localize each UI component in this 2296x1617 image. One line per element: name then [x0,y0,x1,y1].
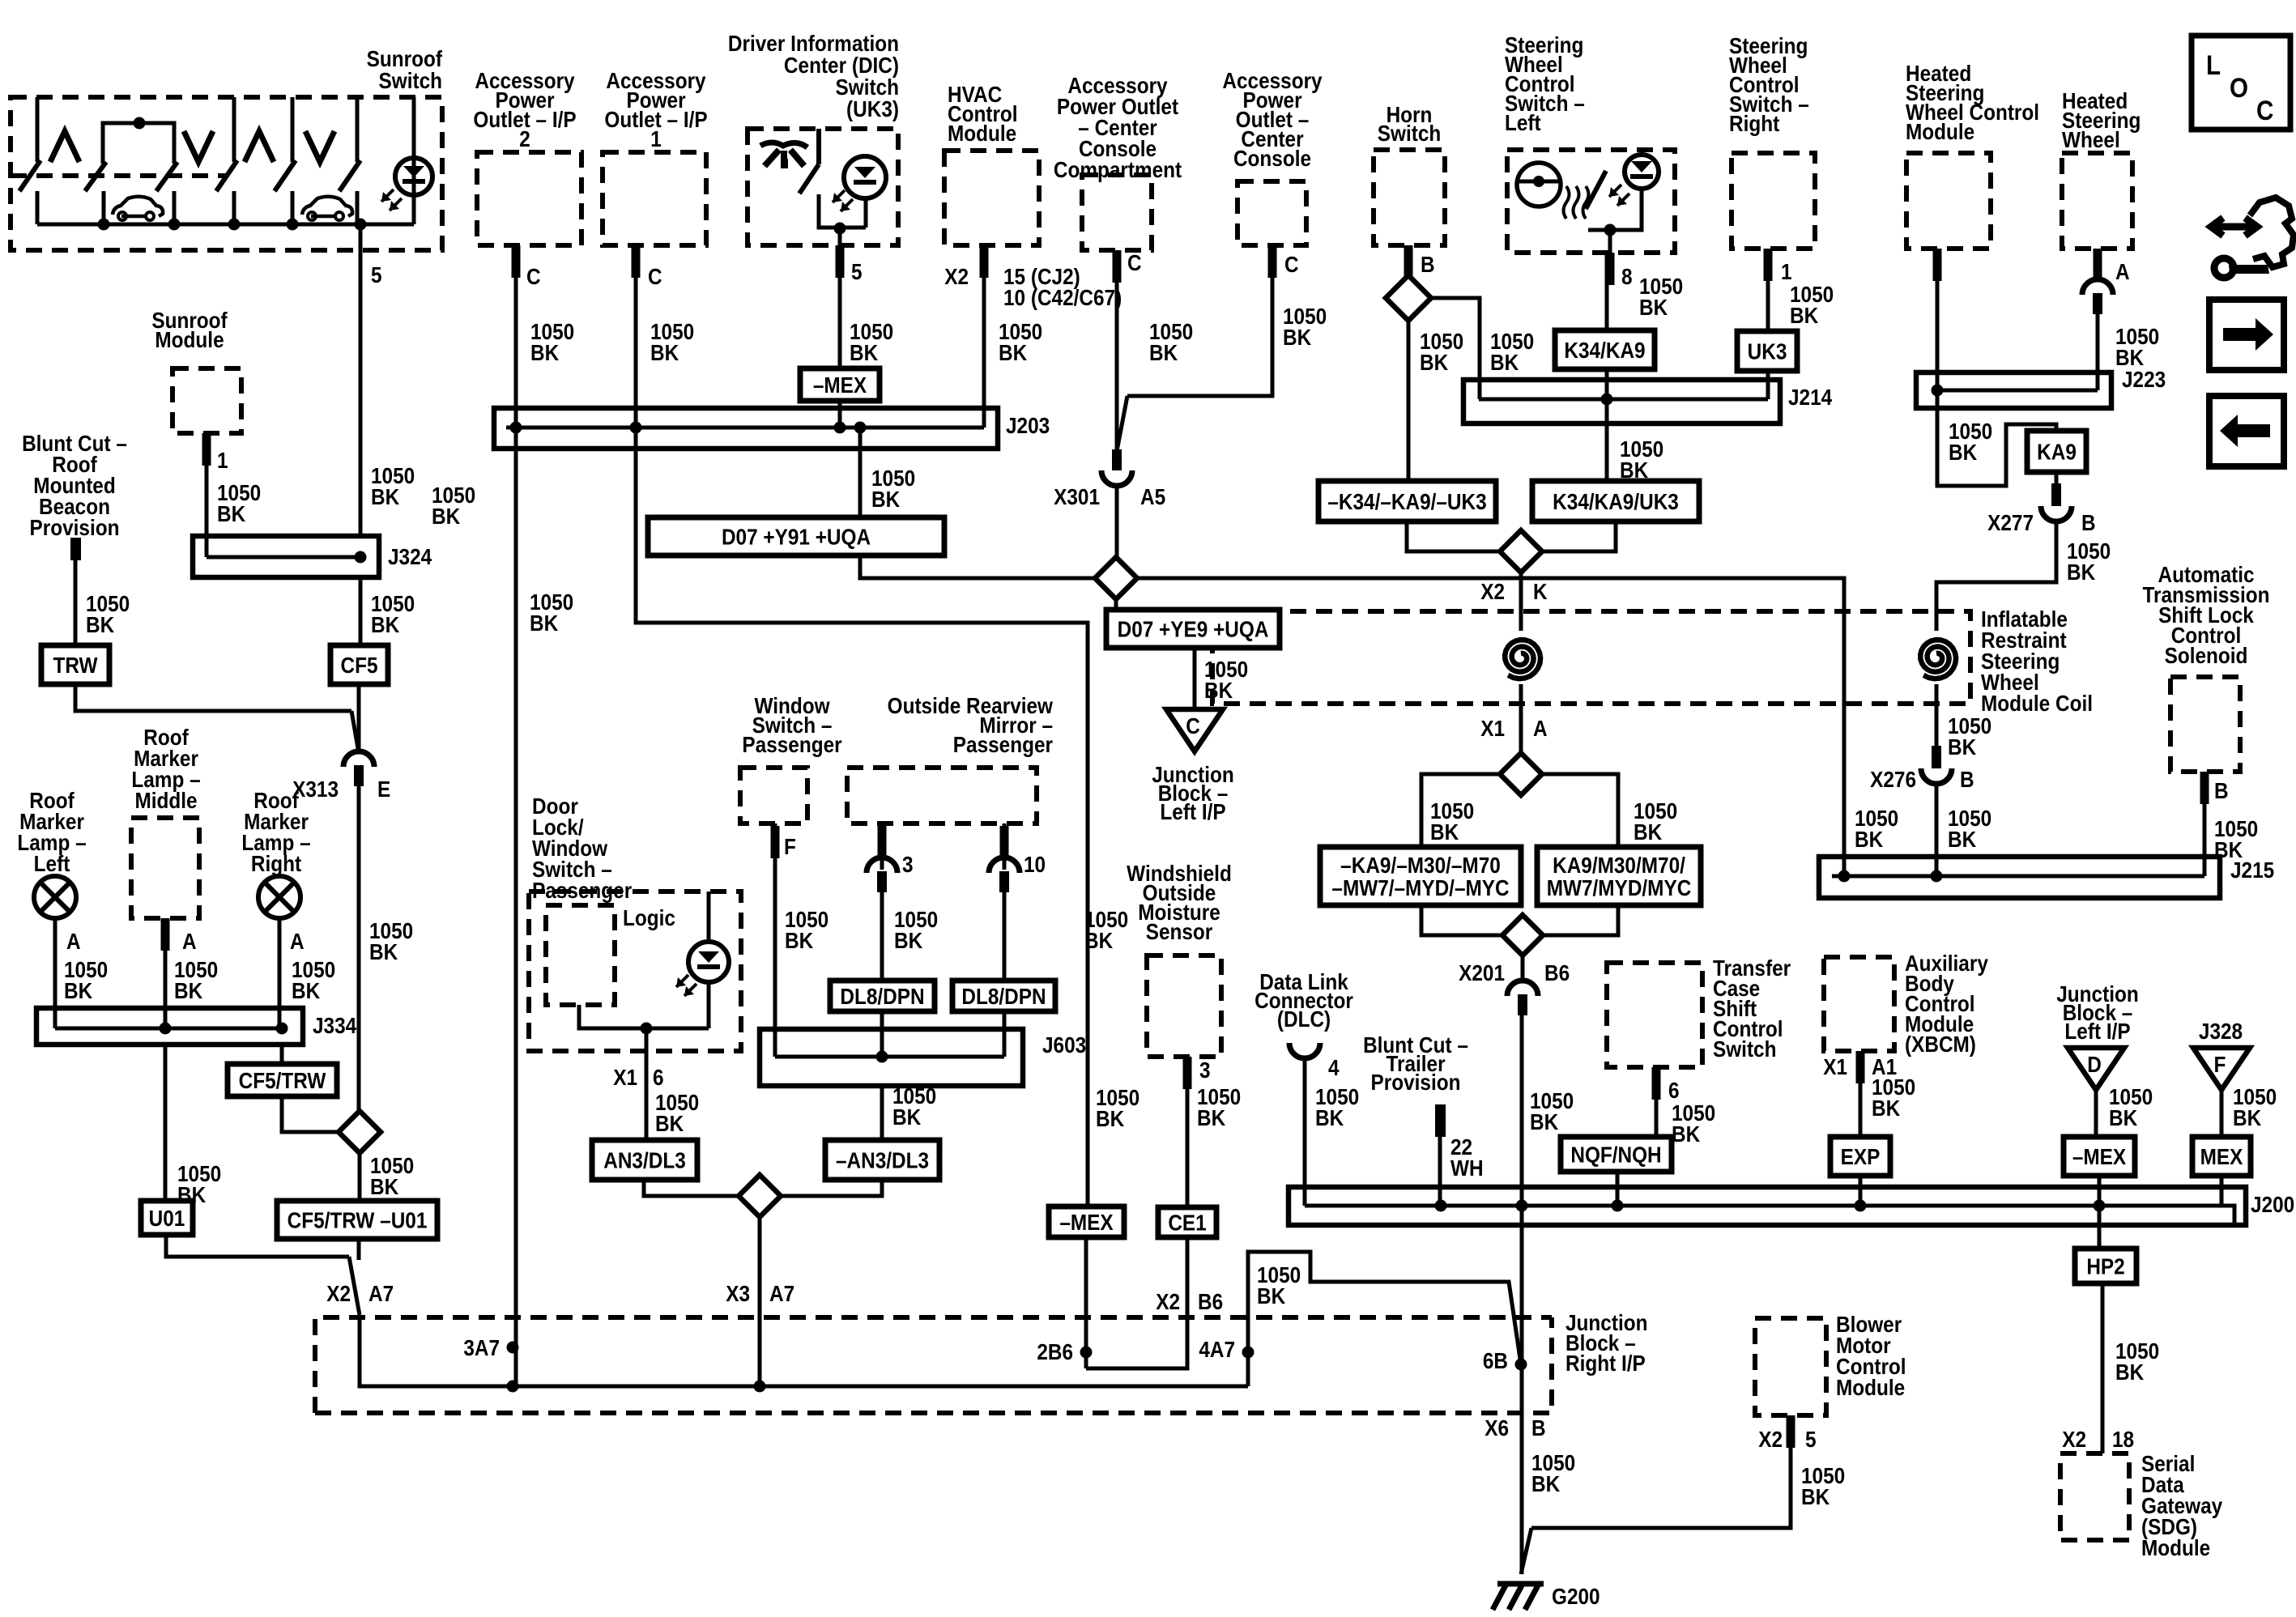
wire K34 box to splice [1542,521,1616,551]
svg-text:Right I/P: Right I/P [1565,1350,1646,1376]
svg-text:Switch: Switch [1713,1036,1776,1062]
svg-text:BK: BK [1872,1095,1900,1121]
option label KA9 [2027,431,2086,472]
wire beacon to TRW [74,559,78,645]
wire CF5 to X313 [357,684,361,753]
svg-text:X2: X2 [326,1280,351,1306]
wire NQF/NQH to J200 [1616,1172,1620,1206]
svg-text:WH: WH [1450,1155,1484,1181]
J223 dot [1932,385,1944,397]
svg-text:U01: U01 [149,1205,185,1231]
switch S1 blade [19,160,40,191]
svg-text:2: 2 [519,126,530,151]
steering wheel control switch right box [1732,153,1815,249]
slant into X313 [351,711,359,753]
svg-text:K34/KA9: K34/KA9 [1564,337,1645,363]
windshield moisture sensor box [1147,955,1221,1057]
svg-text:C: C [1186,713,1200,738]
connector X313 [343,751,374,767]
svg-text:CF5/TRW: CF5/TRW [239,1067,326,1093]
svg-text:18: 18 [2112,1426,2134,1452]
svg-text:X2: X2 [1758,1426,1783,1452]
svg-text:BK: BK [64,977,92,1003]
wire DL8 right to J603 [1003,1011,1007,1057]
sunroof switch pin 5 wire [359,224,363,536]
serial data gateway box [2060,1453,2129,1540]
svg-text:X1: X1 [613,1064,637,1090]
accessory power outlet I/P 1 box [603,152,706,245]
svg-text:B6: B6 [1544,960,1570,985]
wire K34/KA9 through J214 [1605,369,1609,481]
svg-text:BK: BK [871,486,900,512]
blower pin 5 wire [1531,1415,1791,1528]
svg-text:8: 8 [1621,263,1633,289]
wire X313 down [357,785,361,1111]
dot 6B [1515,1359,1527,1371]
SWCS-L heat waves [1564,186,1570,219]
svg-text:Provision: Provision [30,514,120,540]
J200 dot [1516,1200,1528,1212]
svg-text:F: F [784,833,796,859]
SWCS-L LED [1625,155,1659,189]
svg-text:X313: X313 [292,776,339,802]
wire splice to KA9 box [1542,774,1618,847]
DIC switch stub [816,129,821,164]
connector mirror pin 10 [989,857,1020,873]
svg-text:BK: BK [1096,1105,1124,1131]
wire X201 down to J200 and ground [1520,1015,1524,1574]
svg-text:B: B [2081,509,2096,535]
svg-text:X277: X277 [1987,509,2034,535]
fuse label -MEX right [2064,1137,2135,1176]
connector X276 [1921,768,1952,784]
wire into X2-A7 [357,1239,361,1260]
svg-text:BK: BK [892,1104,921,1130]
fuse label MEX [2192,1137,2251,1176]
HSWCM wire [1937,249,2056,486]
svg-text:BK: BK [2233,1104,2261,1130]
wire HP2 to SDG [2101,1283,2105,1453]
switch S3 bottom stub [291,191,295,224]
svg-text:1: 1 [217,447,228,473]
wire X276 to J215 [1935,783,1939,876]
sunroof switch gang dashed line [11,173,225,178]
heated steering wheel box [2062,153,2132,249]
svg-text:C: C [526,263,541,289]
svg-text:5: 5 [851,258,863,284]
svg-text:10: 10 [1024,851,1046,877]
svg-text:1: 1 [650,126,662,151]
J200 dot [1435,1200,1447,1212]
svg-text:(UK3): (UK3) [846,96,899,121]
svg-text:BK: BK [1855,826,1883,852]
svg-text:Module: Module [2141,1534,2210,1560]
roof marker lamp left symbol [34,876,76,918]
svg-text:3A7: 3A7 [463,1334,500,1360]
wire -MEX down to CE1 loop [1084,1237,1088,1368]
switch S2b bottom stub [173,191,177,224]
wire EXP to J200 [1859,1176,1863,1206]
option label KA9/M30/M70 [1537,847,1701,905]
svg-text:B: B [1421,251,1435,277]
svg-text:J223: J223 [2122,366,2166,392]
option label CE1 [1158,1207,1216,1237]
svg-text:BK: BK [1197,1104,1225,1130]
fuse label TRW [41,645,109,684]
svg-text:BK: BK [785,927,813,953]
wire X301 to splice [1115,486,1119,557]
wire CE1 down [1086,1237,1187,1368]
svg-text:B: B [1531,1415,1546,1440]
wire TRW to X313 [75,684,351,711]
J200 bus [1305,1206,2234,1225]
slant to ground wire [1521,1528,1531,1574]
loop junction dot [134,117,146,130]
svg-text:3: 3 [902,851,914,877]
svg-text:6B: 6B [1483,1347,1508,1373]
ORVM pin 10 wire [1003,823,1007,870]
switch S4 blade [339,160,360,191]
fuse label -MEX center [1049,1206,1124,1237]
wire -MEX to J203 [838,401,842,428]
wire coil to splice 2 [1519,684,1523,753]
wire DLC to J200 [1303,1058,1307,1206]
svg-text:BK: BK [1315,1104,1344,1130]
wire J324 to CF5 [359,577,363,645]
svg-text:BK: BK [530,610,558,636]
switch S2a bottom stub [102,191,106,224]
svg-text:4A7: 4A7 [1199,1336,1235,1362]
connector DLC [1289,1043,1320,1058]
option label DL8/DPN right [952,981,1055,1011]
svg-text:BK: BK [1949,439,1977,465]
svg-text:BK: BK [1204,677,1233,703]
chevron down 1 [184,131,213,162]
transfer case shift control switch box [1607,963,1702,1067]
svg-text:10 (C42/C67): 10 (C42/C67) [1003,284,1122,310]
connector X301 [1101,470,1132,486]
svg-text:6: 6 [653,1064,664,1090]
splice diamond S1 [339,1111,381,1153]
wire splice to -KA9 box [1421,774,1500,847]
junction J215 box [1819,857,2220,898]
svg-text:MW7/MYD/MYC: MW7/MYD/MYC [1547,874,1692,900]
bus dot at 633 [507,1381,519,1393]
svg-text:EXP: EXP [1841,1143,1881,1169]
wire KA9 box to splice 3 [1542,905,1618,935]
J203 bus [506,426,984,430]
svg-text:X2: X2 [944,263,969,289]
wire splice to coil [1519,572,1523,631]
XBCM pin A1 wire [1859,1051,1863,1137]
car icon 1 [113,197,163,216]
connector HSW A [2082,279,2113,295]
wire D to -MEX [2094,1090,2098,1137]
svg-text:5: 5 [1805,1426,1817,1452]
svg-text:Left: Left [34,850,70,876]
SWCS-L switch blade [1586,171,1606,209]
window switch pin F wire [773,823,777,1057]
bus dot [228,219,241,231]
pin stubs at dashed box exits [202,433,211,466]
svg-text:BK: BK [894,927,922,953]
roof marker lamp middle box [131,818,199,918]
wire MEX to J200 [2220,1176,2224,1206]
svg-text:Sensor: Sensor [1146,918,1213,944]
logic box [546,905,615,1005]
svg-text:2B6: 2B6 [1037,1338,1073,1364]
switch S3 blade [275,160,296,191]
J603 bus [775,1055,1004,1059]
junction J203 box [494,408,998,449]
LED lower wire [707,981,711,1028]
DIC LED [844,156,886,198]
switch S1 top stub [36,97,40,162]
lamp middle wire [164,918,168,1028]
svg-text:BK: BK [655,1110,684,1136]
J324 bus [207,555,360,560]
svg-text:BK: BK [369,938,398,964]
svg-text:F: F [2214,1051,2226,1077]
svg-text:–MW7/–MYD/–MYC: –MW7/–MYD/–MYC [1331,874,1509,900]
slant X2-A7 [349,1257,360,1315]
DIC display icon [760,143,807,147]
svg-text:J328: J328 [2199,1018,2243,1044]
sunroof switch bus [37,223,414,227]
svg-text:J334: J334 [313,1012,357,1038]
option label D07+YE9+UQA [1106,610,1280,648]
svg-text:DL8/DPN: DL8/DPN [961,983,1046,1009]
svg-text:BK: BK [1490,349,1519,375]
wire pin3 to DL8/DPN [880,891,884,981]
svg-text:X2: X2 [1480,578,1505,604]
accessory power outlet I/P 2 box [477,152,581,245]
wire J334 to CF5/TRW [280,1045,284,1064]
junction J223 box [1916,372,2111,408]
splice diamond horn [1386,275,1431,321]
outside rearview mirror box [847,768,1037,823]
svg-text:A: A [66,928,81,954]
transfer case pin 6 wire [1655,1067,1659,1137]
fuse label CF5/TRW [228,1064,337,1096]
svg-text:Middle: Middle [134,787,197,813]
svg-text:3: 3 [1199,1057,1211,1083]
horn switch box [1374,150,1445,245]
svg-text:BK: BK [370,1173,398,1199]
svg-text:BK: BK [850,339,878,365]
blunt cut trailer stub [1435,1104,1446,1137]
LED feed wire [707,891,711,939]
svg-text:BK: BK [1801,1483,1830,1509]
svg-text:A: A [182,928,197,954]
splice bottom to D07+YE9 box [1114,599,1118,610]
DIC LED wire [864,199,868,228]
svg-text:Left I/P: Left I/P [1160,798,1225,824]
left arrow box [2209,396,2284,466]
svg-text:Module Coil: Module Coil [1981,690,2093,716]
svg-text:C: C [1127,249,1142,275]
wire -KA9 box to splice 3 [1421,905,1503,935]
horn splice right branch [1431,298,1480,399]
DIC switch box [748,129,898,245]
svg-text:BK: BK [2115,1359,2144,1385]
svg-text:BK: BK [1531,1470,1560,1496]
junction block triangle D [2068,1048,2124,1090]
J223 bus [1936,389,2098,393]
LED wire [412,97,416,224]
option label K34/KA9/UK3 [1532,481,1699,521]
svg-text:BK: BK [530,339,559,365]
svg-text:BK: BK [1530,1108,1558,1134]
svg-text:MEX: MEX [2200,1143,2243,1169]
LOC box [2192,36,2290,130]
marker dot 2B6 [1080,1347,1093,1359]
svg-text:CE1: CE1 [1168,1210,1206,1236]
svg-text:Left I/P: Left I/P [2064,1018,2130,1044]
APO CC pin C wire [1127,245,1272,396]
J200 dot [2094,1200,2106,1212]
svg-text:J324: J324 [388,543,432,569]
switch S2 top stub [232,97,236,162]
svg-text:KA9: KA9 [2037,439,2077,465]
svg-text:Switch: Switch [379,67,442,93]
steering wheel control switch left box [1507,150,1675,253]
svg-text:DL8/DPN: DL8/DPN [840,983,924,1009]
svg-text:A: A [2115,258,2130,284]
svg-text:C: C [2256,95,2273,126]
svg-text:BK: BK [650,339,679,365]
svg-text:E: E [377,776,390,802]
svg-text:BK: BK [371,483,399,509]
svg-text:Switch: Switch [1378,120,1441,146]
svg-text:X6: X6 [1485,1415,1509,1440]
option label AN3/DL3 [592,1140,697,1180]
svg-text:Right: Right [1729,110,1779,136]
roof marker lamp right symbol [258,876,300,918]
wire pin8 to K34/KA9 [1605,253,1609,330]
J214 bus [1479,398,1768,402]
J214 dot [1601,394,1613,406]
chevron down 2 [305,131,334,162]
J324 junction dot [355,551,367,564]
junction J200 box [1289,1187,2246,1225]
svg-text:B6: B6 [1198,1288,1223,1314]
svg-text:HP2: HP2 [2086,1253,2124,1279]
junction block right I/P dashed box [315,1317,1552,1413]
J215 dot 1 [1838,870,1851,883]
switch S2b blade [156,162,177,191]
svg-text:BK: BK [371,611,399,637]
svg-text:A7: A7 [769,1280,794,1306]
horn splice bottom branch [1407,321,1411,481]
SWCS-L inner dot [1604,224,1617,236]
splice diamond AN3 [739,1175,781,1217]
DIC pin 5 wire [838,228,842,368]
svg-text:(XBCM): (XBCM) [1905,1031,1976,1057]
svg-text:O: O [2230,72,2248,103]
svg-text:–AN3/DL3: –AN3/DL3 [836,1147,929,1173]
svg-text:A: A [290,928,305,954]
SWCS-L pin 8 wire [1608,230,1612,253]
APO center console box [1237,181,1306,245]
svg-text:Solenoid: Solenoid [2165,642,2248,668]
svg-text:J215: J215 [2230,857,2274,883]
splice right branch to J215 [1137,578,1844,876]
junction block triangle C [1166,709,1223,751]
APO2 pin C long wire [514,245,518,1386]
inflatable restraint coil box [1212,611,1970,704]
DIC inner wire [819,194,866,228]
APO1 pin C wire [636,245,1088,1211]
svg-text:BK: BK [174,977,202,1003]
switch S1 bottom stub [36,191,40,224]
svg-text:BK: BK [432,503,460,529]
bus dot [98,219,110,231]
DIC switch blade [799,164,819,194]
svg-text:A: A [1533,715,1548,741]
svg-text:BK: BK [1430,819,1459,845]
svg-text:J214: J214 [1788,384,1833,410]
svg-text:C: C [1284,251,1299,277]
fuse label CF5/TRW-U01 [277,1201,437,1239]
wire A to J223 [2096,314,2100,390]
bus dot at 938 [754,1381,766,1393]
J203 dot [630,422,642,434]
sunroof switch box [11,97,442,250]
marker dot 4A7 [1242,1347,1254,1359]
wire DL8 left to J603 [880,1011,884,1057]
svg-text:Provision: Provision [1371,1069,1461,1095]
svg-text:BK: BK [217,500,245,526]
switch S3 top stub [291,97,295,162]
svg-text:–MEX: –MEX [2072,1143,2127,1169]
svg-text:4: 4 [1328,1054,1340,1080]
sunroof module box [173,368,241,433]
option label -K34/-KA9/-UK3 [1318,481,1496,521]
wire D07+Y91 to X301 splice [860,555,1095,578]
SWCS-R pin 1 wire [1766,249,1770,331]
junction J334 box [36,1008,303,1045]
svg-text:D07 +Y91 +UQA: D07 +Y91 +UQA [722,524,871,550]
svg-text:BK: BK [1283,324,1311,350]
HVAC control module box [944,151,1039,245]
svg-text:BK: BK [1672,1121,1700,1147]
svg-text:Logic: Logic [623,904,675,930]
svg-text:BK: BK [1639,294,1668,320]
svg-text:X301: X301 [1054,483,1100,509]
svg-text:Module: Module [948,120,1016,146]
wire pin10 to DL8/DPN [1003,891,1007,981]
wire B step to 6B [1248,1252,1521,1386]
junction block triangle F [2193,1048,2250,1090]
door lock window switch box [529,891,741,1051]
svg-text:BK: BK [1790,302,1818,328]
svg-text:–MEX: –MEX [813,372,867,398]
svg-text:BK: BK [86,611,114,637]
HVAC wire [982,245,986,428]
svg-text:BK: BK [1948,826,1976,852]
wire -MEX to J200 and HP2 [2098,1176,2102,1249]
switch S2a blade [85,162,106,191]
svg-text:B: B [1960,766,1974,792]
svg-text:K34/KA9/UK3: K34/KA9/UK3 [1553,488,1679,514]
svg-text:C: C [648,263,662,289]
svg-text:Module: Module [155,326,224,352]
svg-text:X1: X1 [1480,715,1505,741]
junction J214 box [1463,380,1780,423]
car icon 2 [302,197,352,216]
option label D07+Y91+UQA [648,517,944,555]
